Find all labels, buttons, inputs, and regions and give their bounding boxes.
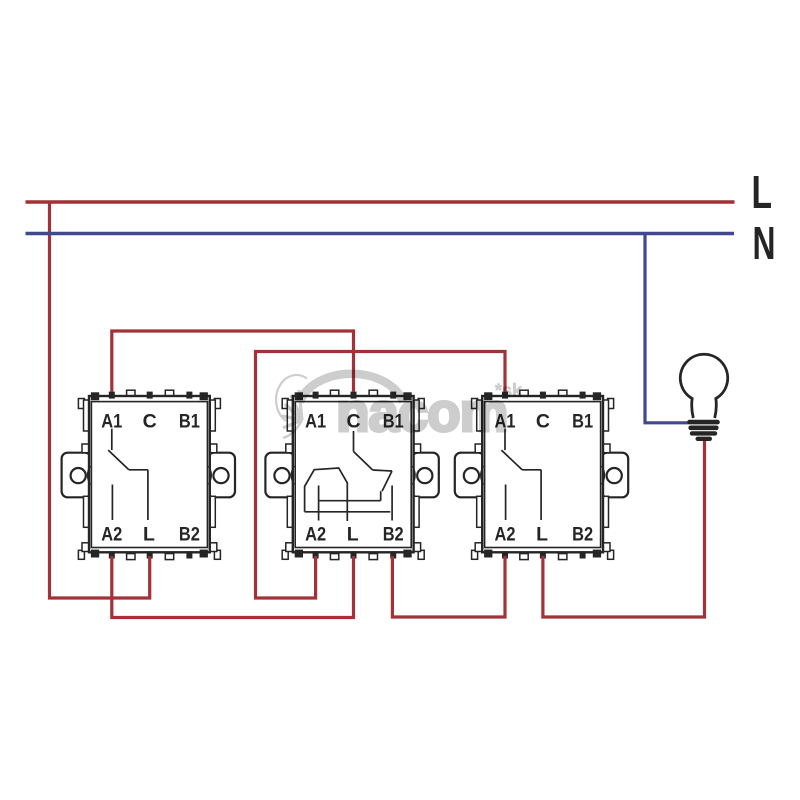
big arch swoosh: [300, 374, 403, 402]
svg-text:N: N: [753, 217, 776, 269]
switch S1 contact symbol A1-L: [108, 429, 148, 520]
svg-text:*sk: *sk: [495, 381, 523, 401]
live wiring (red): [26, 202, 735, 618]
switch S3 (one-way, terminals A1 C B1 / A2 L B2): [455, 390, 628, 559]
net label N (neutral): [753, 217, 776, 269]
wire: L bus down to S1 terminal L: [50, 202, 150, 598]
lamp E1 screw base threads: [687, 420, 720, 441]
switch S3 contact symbol A1-L: [501, 429, 541, 520]
switch S2 (intermediate/cross, terminals A1 C B1 / A2 L B2): [265, 390, 438, 559]
wire: L (live) bus: [26, 200, 735, 203]
switch S2 cross contact symbol: [305, 431, 393, 521]
svg-text:nacom: nacom: [336, 381, 507, 443]
small inner arch: [276, 375, 307, 421]
lamp E1 glass bulb: [680, 354, 727, 418]
net label L (live): [752, 166, 773, 218]
wire: N bus down to lamp E1 base: [645, 234, 689, 423]
wire: S2 B2 down and over to S3 A2: [392, 556, 505, 617]
wire: N (neutral) bus: [26, 232, 735, 235]
wire: S3 L down and over to lamp E1: [543, 440, 705, 617]
wire: S1 A1 up and over to S2 C: [112, 331, 354, 392]
vendor watermark (decorative): [276, 374, 523, 443]
lamp E1: [680, 354, 727, 441]
wire: S2 A2 down, around and up to S3 A1: [256, 352, 506, 599]
wire: S1 A2 down and over to S2 L: [112, 556, 354, 618]
neutral wiring (blue): [26, 234, 735, 423]
switch S1 (one-way, terminals A1 C B1 / A2 L B2): [62, 390, 235, 559]
leaf petal fan: [282, 390, 302, 438]
svg-text:L: L: [752, 166, 773, 218]
